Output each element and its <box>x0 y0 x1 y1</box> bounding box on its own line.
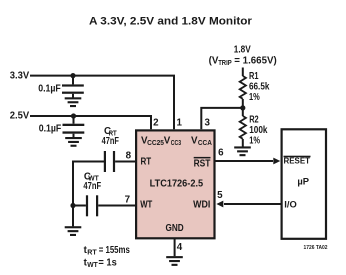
svg-text:WT: WT <box>140 199 152 210</box>
svg-text:CCA: CCA <box>198 140 212 147</box>
svg-text:WT: WT <box>87 262 98 269</box>
svg-text:R1: R1 <box>249 71 259 82</box>
svg-text:7: 7 <box>125 194 131 205</box>
svg-text:0.1µF: 0.1µF <box>38 83 61 94</box>
svg-text:R2: R2 <box>249 115 259 126</box>
svg-text:TRIP: TRIP <box>218 60 232 67</box>
svg-text:RT: RT <box>87 250 97 257</box>
svg-text:V: V <box>164 136 171 147</box>
svg-text:I/O: I/O <box>284 198 297 209</box>
svg-text:3: 3 <box>204 117 210 128</box>
svg-text:RESET: RESET <box>284 155 311 165</box>
svg-text:47nF: 47nF <box>102 136 119 147</box>
svg-text:1%: 1% <box>249 136 260 147</box>
svg-text:= 155ms: = 155ms <box>99 245 131 256</box>
svg-text:47nF: 47nF <box>83 181 101 192</box>
svg-text:CC25: CC25 <box>147 140 164 147</box>
svg-text:0.1µF: 0.1µF <box>39 124 62 135</box>
svg-text:A 3.3V, 2.5V and 1.8V Monitor: A 3.3V, 2.5V and 1.8V Monitor <box>89 15 253 27</box>
svg-text:RST: RST <box>194 158 211 169</box>
svg-text:1%: 1% <box>249 92 260 103</box>
svg-text:2.5V: 2.5V <box>10 111 30 122</box>
svg-text:= 1.665V): = 1.665V) <box>234 56 276 67</box>
svg-text:6: 6 <box>218 148 224 159</box>
svg-text:1.8V: 1.8V <box>234 44 251 55</box>
svg-text:= 1s: = 1s <box>98 258 117 269</box>
svg-text:LTC1726-2.5: LTC1726-2.5 <box>150 179 204 190</box>
svg-text:100k: 100k <box>249 125 268 136</box>
svg-text:GND: GND <box>166 223 184 234</box>
svg-text:1726 TA02: 1726 TA02 <box>304 245 328 251</box>
svg-text:5: 5 <box>217 190 223 201</box>
svg-text:CC3: CC3 <box>171 140 181 147</box>
svg-text:3.3V: 3.3V <box>10 71 30 82</box>
svg-text:WDI: WDI <box>193 200 210 211</box>
svg-text:µP: µP <box>297 176 309 187</box>
svg-text:1: 1 <box>176 117 182 128</box>
svg-text:RT: RT <box>141 156 152 167</box>
svg-text:2: 2 <box>153 117 159 128</box>
svg-text:4: 4 <box>177 242 183 253</box>
svg-text:8: 8 <box>126 151 132 162</box>
